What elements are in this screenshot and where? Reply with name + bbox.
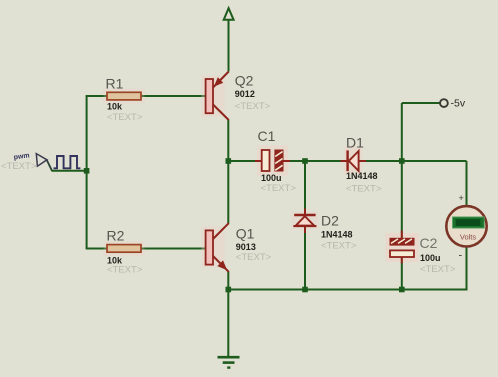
wire C2 top lead (401, 161, 403, 239)
diode D2 (292, 209, 319, 234)
wire power stem to Q2 emitter (228, 20, 230, 72)
svg-text:9012: 9012 (235, 89, 255, 99)
pwm generator symbol (36, 154, 80, 169)
svg-text:C2: C2 (420, 235, 438, 251)
svg-text:<TEXT>: <TEXT> (107, 112, 143, 123)
svg-text:9013: 9013 (236, 242, 256, 252)
terminal -5v (440, 97, 466, 109)
node junction D1/C2/-5v (399, 158, 405, 164)
node junction C1/D2/D1 (302, 158, 308, 164)
wire Q1 emitter to rail (227, 272, 229, 290)
svg-text:100u: 100u (420, 253, 441, 263)
wire D1 to C2 node (359, 160, 402, 162)
svg-text:1N4148: 1N4148 (346, 171, 378, 181)
wire D2 node to D1 (305, 160, 348, 162)
svg-text:R1: R1 (106, 76, 124, 92)
label R2 (107, 227, 143, 275)
svg-text:-5v: -5v (451, 97, 466, 109)
wire voltmeter bottom lead (466, 247, 468, 291)
svg-text:Volts: Volts (460, 233, 477, 242)
resistor R2 (104, 241, 145, 256)
svg-text:-: - (459, 250, 463, 262)
svg-text:<TEXT>: <TEXT> (235, 101, 271, 112)
node junction C2/rail (399, 287, 405, 293)
svg-text:<TEXT>: <TEXT> (346, 184, 382, 195)
pwm label (13, 152, 30, 161)
resistor R1 (104, 89, 145, 104)
wire D2 top lead (304, 161, 306, 215)
node junction Q1 emitter/rail (226, 287, 232, 293)
ground (218, 357, 240, 367)
svg-text:1N4148: 1N4148 (321, 230, 353, 240)
voltmeter minus label (459, 250, 463, 262)
wire R1 left (86, 95, 107, 97)
wire pwm generator lead (47, 160, 87, 171)
pwm text placeholder (1, 161, 37, 172)
wire -5v branch (402, 103, 441, 161)
capacitor C2 (386, 231, 419, 264)
wire D2 bottom lead (304, 227, 306, 290)
voltmeter U1 (446, 206, 486, 246)
node junction collectors/C1 (226, 158, 232, 164)
transistor Q2 (202, 72, 229, 121)
svg-text:<TEXT>: <TEXT> (1, 161, 37, 172)
svg-text:100u: 100u (261, 173, 282, 183)
power symbol VCC arrow (224, 8, 234, 20)
capacitor C1 (255, 146, 290, 176)
svg-text:<TEXT>: <TEXT> (321, 241, 357, 252)
label Q2 (235, 73, 271, 112)
svg-text:Q1: Q1 (236, 226, 255, 242)
label D2 (321, 213, 357, 252)
label C1 (258, 128, 297, 194)
label C2 (420, 235, 456, 275)
svg-text:10k: 10k (107, 102, 123, 112)
wire R2 left (86, 248, 107, 250)
wire collector node vertical (227, 120, 229, 224)
svg-text:D2: D2 (321, 213, 339, 229)
label R1 (106, 76, 143, 123)
svg-text:<TEXT>: <TEXT> (236, 252, 272, 263)
wire ground stem (227, 290, 229, 357)
wire C1 to D2 node (283, 160, 305, 162)
svg-text:<TEXT>: <TEXT> (261, 183, 297, 194)
svg-text:+: + (459, 193, 464, 203)
svg-text:D1: D1 (346, 135, 364, 151)
wire C2 node to voltmeter (402, 161, 467, 207)
node junction pwm/bus (84, 168, 90, 174)
wire C2 bottom lead (401, 257, 403, 290)
svg-text:<TEXT>: <TEXT> (420, 264, 456, 275)
svg-text:C1: C1 (258, 128, 276, 144)
wire node to C1 (228, 160, 262, 162)
svg-text:Q2: Q2 (235, 73, 254, 89)
transistor Q1 (202, 223, 229, 272)
wire R1 to Q2 base (141, 95, 206, 97)
diode D1 (341, 147, 367, 174)
voltmeter plus label (459, 193, 464, 203)
wire left vertical bus (86, 96, 88, 249)
node junction D2/rail (302, 287, 308, 293)
label Q1 (236, 226, 272, 263)
svg-text:R2: R2 (107, 227, 125, 243)
wire bottom rail (228, 289, 466, 291)
label D1 (346, 135, 382, 195)
svg-text:<TEXT>: <TEXT> (107, 265, 143, 276)
wire R2 to Q1 base (141, 248, 206, 250)
